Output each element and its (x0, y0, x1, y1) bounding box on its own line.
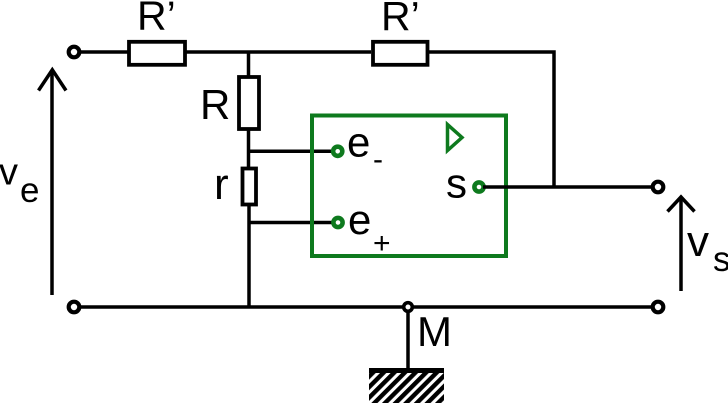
svg-text:v: v (687, 217, 709, 266)
resistor R'2 (373, 42, 428, 65)
wire R bottom to r top (247, 129, 251, 169)
bottom wire (79, 305, 654, 309)
svg-text:e: e (20, 171, 39, 210)
svg-text:M: M (417, 308, 452, 355)
arrow v_e (39, 70, 67, 295)
svg-text:e: e (347, 119, 370, 166)
wire top-left to R'1 (79, 50, 128, 54)
svg-text:e: e (348, 196, 371, 243)
svg-text:R: R (200, 81, 230, 128)
op-amp U1 box (312, 116, 506, 257)
arrow v_s (668, 197, 695, 291)
wire r bottom to ground wire (247, 204, 251, 307)
svg-text:s: s (713, 240, 728, 279)
wire M to ground (406, 311, 410, 371)
svg-text:R’: R’ (381, 0, 420, 39)
svg-text:r: r (214, 160, 229, 209)
terminal output top (653, 182, 664, 193)
svg-text:R’: R’ (137, 0, 176, 39)
resistor R'1 (129, 42, 185, 65)
op-amp triangle symbol (448, 125, 463, 151)
svg-text:s: s (446, 160, 467, 207)
label v_e (0, 152, 39, 211)
svg-text:+: + (373, 227, 391, 260)
label e- (347, 119, 383, 177)
terminal input bottom (69, 302, 80, 313)
wire node to R top (247, 52, 251, 78)
svg-text:v: v (0, 152, 18, 194)
svg-text:-: - (373, 143, 383, 176)
node M (404, 303, 413, 312)
label v_s (687, 217, 728, 279)
wire s to output terminal (483, 185, 655, 189)
wire to pin e- (249, 150, 335, 154)
pin s (474, 182, 483, 191)
resistor R (239, 77, 259, 129)
label e+ (348, 196, 391, 260)
wire R'2 to feedback corner and down (427, 52, 554, 187)
pin e- (333, 147, 342, 156)
wire to pin e+ (249, 221, 334, 225)
wire R'1 to R'2 (185, 50, 371, 54)
resistor r (243, 169, 257, 205)
terminal input top (69, 47, 80, 58)
terminal output bottom (653, 302, 664, 313)
pin e+ (333, 218, 342, 227)
ground (369, 368, 444, 403)
